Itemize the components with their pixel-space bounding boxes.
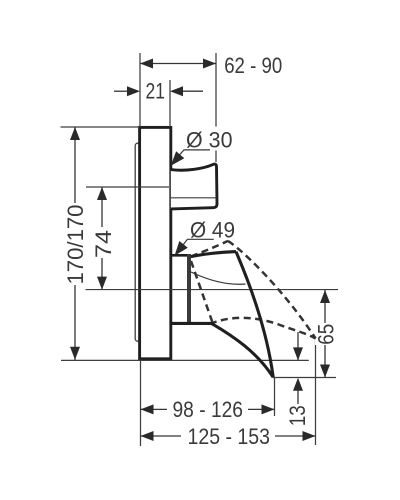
dimension 65 line — [324, 290, 326, 378]
svg-text:Ø 30: Ø 30 — [186, 127, 233, 152]
dimension 74 line — [101, 187, 103, 290]
label 74 — [91, 227, 116, 258]
lever handle bottom edge — [171, 323, 273, 377]
svg-text:170/170: 170/170 — [63, 205, 88, 285]
extension line x274.5 (handle tip) — [274, 378, 276, 417]
dimension 13 lower tail — [297, 390, 299, 404]
arrow 170/170 top — [70, 127, 80, 140]
arrow 21 right — [170, 86, 183, 96]
arrow left 62-90 — [140, 59, 153, 69]
axis line lever — [86, 289, 339, 291]
dimension 13 upper part — [297, 332, 299, 360]
svg-text:13: 13 — [285, 405, 310, 426]
dimension 21 right tail — [182, 90, 204, 92]
svg-text:98 - 126: 98 - 126 — [173, 397, 244, 422]
extension line x216 (knob face) — [215, 53, 217, 127]
extension line x140 top — [139, 53, 141, 127]
svg-text:62 - 90: 62 - 90 — [224, 53, 282, 78]
extension line bottom (plate bottom level) — [61, 359, 309, 361]
dimension 21 left tail — [114, 90, 129, 92]
svg-text:Ø 49: Ø 49 — [190, 217, 235, 242]
arrow 65 top — [320, 290, 330, 303]
arrow 98-126 right — [262, 404, 275, 414]
wall plate body — [140, 127, 171, 358]
knob (shut-off handle, side view) — [171, 164, 217, 209]
lever base stem — [187, 254, 191, 323]
dashed rotated bottom curve — [210, 318, 316, 339]
extension line x140 bottom — [140, 360, 142, 446]
arrow 74 top — [97, 187, 107, 200]
lever handle top edge — [191, 252, 236, 257]
leader arrow D30 — [171, 151, 185, 166]
arrow 65 bottom — [320, 365, 330, 378]
back escutcheon plate — [135, 143, 141, 341]
lever sleeve top — [171, 254, 188, 257]
arrow right 62-90 — [203, 59, 216, 69]
dimension 170/170 line — [74, 127, 76, 360]
label 170/170 — [63, 203, 88, 285]
leader arrow D49 — [175, 241, 188, 256]
label 65 — [313, 323, 338, 345]
arrow 74 bottom — [97, 277, 107, 290]
arrow 125-153 right — [303, 431, 316, 441]
leader line D49 — [181, 239, 214, 247]
arrow 13 bottom (outside, pointing up) — [293, 378, 303, 391]
leader line D30 — [178, 150, 211, 157]
extension line top left (plate top) — [61, 126, 140, 128]
arrow 21 left — [127, 86, 140, 96]
arrow 13 top (outside, pointing down) — [293, 347, 303, 360]
svg-text:21: 21 — [146, 79, 166, 104]
lever handle right edge — [236, 252, 273, 378]
extension line x315.5 (dashed tip) — [315, 340, 317, 445]
lever inner curve — [191, 272, 246, 284]
axis line knob — [86, 186, 169, 188]
dimension 62-90 line — [140, 63, 216, 65]
knob inner line — [171, 197, 217, 199]
arrow 125-153 left — [141, 431, 154, 441]
arrow 170/170 bottom — [70, 347, 80, 360]
dashed rotated top edge — [191, 241, 228, 257]
dimension 125-153 line — [141, 435, 182, 437]
dimension 98-126 line — [141, 408, 168, 410]
extension line handle tip level — [273, 377, 336, 379]
svg-text:74: 74 — [91, 230, 116, 258]
extension line x170 top — [169, 80, 171, 127]
dashed rotated left edge — [191, 261, 213, 323]
svg-text:65: 65 — [313, 324, 338, 345]
svg-text:125 - 153: 125 - 153 — [188, 424, 271, 449]
label 13 — [285, 405, 310, 426]
arrow 98-126 left — [141, 404, 154, 414]
dashed rotated right edge — [228, 241, 316, 339]
